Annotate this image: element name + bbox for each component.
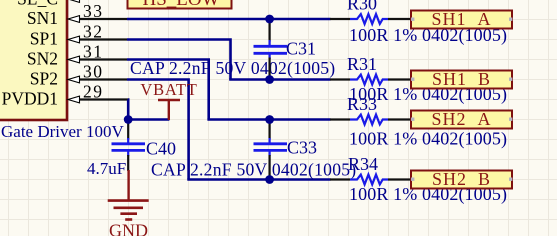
IC description text "Gate Driver 100V" <box>1 122 124 141</box>
wire SN2 net: horizontal y=59.5 then down at x=208.7 to y=119.5 <box>127 60 209 120</box>
C31 parameter text CAP 2.2nF 50V 0402(1005) <box>130 58 335 78</box>
resistor R33 (leads and body) row y=119.5 <box>330 115 411 125</box>
port HS_LOW (clipped at top) <box>128 0 232 10</box>
svg-text:C31: C31 <box>286 39 316 59</box>
pin name SN1 <box>27 8 58 28</box>
svg-text:SN2: SN2 <box>27 49 58 69</box>
capacitor C31 vertical pin upper (black) at x=269.6 <box>269 19 271 42</box>
pin number 33 <box>83 1 104 21</box>
resistor R33 designator text <box>347 94 377 114</box>
svg-text:29: 29 <box>83 82 104 102</box>
resistor R30 (leads and body) row y=19 <box>330 14 411 24</box>
svg-text:GND: GND <box>109 221 148 237</box>
pin name SP2 <box>30 69 58 89</box>
pin name SL_C <box>17 0 58 9</box>
C40 value text 4.7uF <box>87 159 126 178</box>
wire PVDD1 net: down at x=128.2 from pin to y=119.5 <box>127 100 130 120</box>
C33 parameter text CAP 2.2nF 50V 0402(1005) <box>151 160 356 180</box>
wire SP1 net row y=79.5 to R31 <box>229 78 330 81</box>
R33 parameter text <box>349 129 507 150</box>
svg-text:PVDD1: PVDD1 <box>2 89 58 109</box>
R30 parameter text <box>349 25 507 46</box>
wire SP2 net: horizontal y=79.5 then down at x=188.6 to y=179.5 <box>127 80 189 180</box>
pin C33 top black from junction at row 119.5 down to plate <box>269 120 271 140</box>
wire SP2 net row y=179.5 to R34 <box>187 178 330 181</box>
pin C31 bottom black down to junction at row 79.5 <box>269 58 271 81</box>
wire SP1 net: horizontal y=39.5 then down at x=230.5 to y=79.5 <box>127 40 231 80</box>
pin 31 SN2: arrow and pin line <box>68 56 127 63</box>
capacitor C31 symbol (plates and blue stubs) <box>254 40 288 59</box>
pin 30 SP2: arrow and pin line <box>68 76 127 83</box>
port SH1_A <box>411 9 512 29</box>
svg-text:32: 32 <box>83 22 104 42</box>
capacitor C40 top pin black from junction <box>127 120 129 140</box>
power port VBATT (bar, stem, text) <box>140 80 197 120</box>
junction dot PVDD1/C40 at (128.2,119.5) <box>124 115 133 124</box>
svg-text:C33: C33 <box>287 138 317 158</box>
pin 33 SN1: arrow and pin line <box>68 16 127 23</box>
capacitor C31 designator text <box>286 39 316 59</box>
pin number 29 <box>83 82 104 102</box>
R31 parameter text <box>349 84 507 105</box>
svg-text:C40: C40 <box>146 139 176 159</box>
resistor R34 (leads and body) row y=179.5 <box>330 175 411 185</box>
svg-text:CAP 2.2nF 50V 0402(1005): CAP 2.2nF 50V 0402(1005) <box>130 58 335 78</box>
svg-text:SP1: SP1 <box>30 29 58 49</box>
svg-text:33: 33 <box>83 1 104 21</box>
pin C33 bottom black to row 179.5 <box>269 155 271 180</box>
wire PVDD1 net row y=119.5 to VBATT stem <box>128 118 169 121</box>
pin name SP1 <box>30 29 58 49</box>
svg-text:HS_LOW: HS_LOW <box>142 0 219 10</box>
wire SN1 net row y=19 <box>127 18 331 21</box>
svg-text:CAP 2.2nF 50V 0402(1005): CAP 2.2nF 50V 0402(1005) <box>151 160 356 180</box>
resistor R30 designator text (clipped at top) <box>347 0 377 14</box>
junction dot SP2/C33 at (269.6,179.5) <box>265 175 274 184</box>
junction dot SP1/C31 at (269.6,79.5) <box>265 75 274 84</box>
svg-text:VBATT: VBATT <box>140 80 197 99</box>
pin 29 PVDD1: arrow and pin line <box>68 96 128 103</box>
capacitor C33 designator text <box>287 138 317 158</box>
pin name PVDD1 <box>2 89 58 109</box>
svg-text:30: 30 <box>83 62 104 82</box>
pin C40 bottom black <box>127 155 129 171</box>
port SH2_B <box>411 169 512 189</box>
svg-text:R33: R33 <box>347 94 377 114</box>
svg-text:R30: R30 <box>347 0 377 14</box>
IC U1 gate driver body (partial, clipped at left/top) <box>0 0 67 120</box>
svg-text:31: 31 <box>83 42 104 62</box>
svg-text:SP2: SP2 <box>30 69 58 89</box>
svg-text:SH2 A: SH2 A <box>431 109 491 129</box>
R34 parameter text <box>349 184 507 205</box>
ground GND symbol <box>108 170 149 240</box>
svg-text:4.7uF: 4.7uF <box>87 159 126 178</box>
resistor R31 (leads and body) row y=79.5 <box>330 75 411 85</box>
junction dot SN1/C31 at (269.6,19) <box>265 15 274 24</box>
pin arrow SL_C (clipped) <box>68 0 80 2</box>
svg-text:100R 1% 0402(1005): 100R 1% 0402(1005) <box>349 129 507 150</box>
svg-text:SH1 A: SH1 A <box>431 9 491 29</box>
port SH2_A <box>411 109 512 129</box>
pin number 30 <box>83 62 104 82</box>
svg-text:SN1: SN1 <box>27 8 58 28</box>
resistor R31 designator text <box>347 54 377 74</box>
resistor R34 designator text <box>348 154 378 174</box>
svg-text:R34: R34 <box>348 154 378 174</box>
pin number 31 <box>83 42 104 62</box>
capacitor C33 symbol (plates and blue stubs) <box>254 138 288 156</box>
capacitor C40 designator text <box>146 139 176 159</box>
capacitor C40 symbol (plates and blue stubs) <box>112 138 146 156</box>
pin 32 SP1: arrow and pin line <box>68 36 127 43</box>
wire SN2 net row y=119.5 to R33 <box>207 118 330 121</box>
svg-text:SH2 B: SH2 B <box>432 169 491 189</box>
svg-text:Gate Driver 100V: Gate Driver 100V <box>1 122 124 141</box>
port SH1_B <box>411 69 512 89</box>
svg-text:SH1 B: SH1 B <box>432 69 491 89</box>
junction dot SN2/C33 at (269.6,119.5) <box>265 115 274 124</box>
svg-text:R31: R31 <box>347 54 377 74</box>
pin number 32 <box>83 22 104 42</box>
pin name SN2 <box>27 49 58 69</box>
